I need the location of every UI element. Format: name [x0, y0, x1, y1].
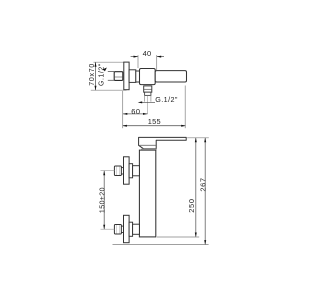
lower connector pipe [133, 224, 140, 234]
svg-text:G.1/2": G.1/2" [98, 63, 105, 86]
upper connector pipe [133, 166, 140, 176]
dimension 40 arrow right (pointing left) [157, 56, 162, 58]
dimension 70x70 extension line bottom [91, 89, 127, 91]
dimension 250 bottom extension line [157, 236, 199, 238]
faucet body (side view) [139, 150, 155, 237]
dimension 70x70 arrow up [95, 62, 97, 66]
extension line right (handle tip projection) for 155 [184, 86, 186, 129]
dimension 150±20 line [103, 171, 105, 230]
dimension 60 arrow right [143, 113, 148, 115]
dimension 60 line [123, 113, 148, 115]
inlet stub bottom line [108, 79, 114, 81]
dimension 40 line right part [157, 56, 164, 58]
connector ring B (top view) [136, 71, 140, 82]
dimension 250 arrow up [195, 138, 197, 143]
dimension 267 bottom extension line [113, 244, 209, 246]
leader line for outlet label [140, 101, 156, 103]
outlet centerline [147, 96, 149, 114]
svg-text:150±20: 150±20 [100, 187, 107, 213]
dimension 60 arrow left [123, 113, 128, 115]
dimension 155 arrow left [122, 125, 127, 127]
dimension 150±20 arrow down [103, 225, 105, 230]
outlet nut midline [144, 88, 152, 90]
inlet stub top line [108, 71, 114, 73]
lower inlet nut (side view) [114, 225, 121, 235]
dimension 150±20 arrow up [103, 171, 105, 176]
lower connector ring [129, 222, 133, 236]
svg-text:267: 267 [198, 177, 207, 191]
lower wall plate (side view) [124, 215, 130, 242]
cartridge collar (side view) [142, 149, 157, 150]
dimension 267 arrow up [204, 138, 206, 143]
dimension 250 line [195, 138, 197, 237]
upper inlet centerline [101, 170, 115, 172]
lower inlet washer [121, 226, 123, 232]
dimension 40 extension line left [137, 55, 139, 68]
wall plate (top view) [124, 62, 129, 90]
svg-text:155: 155 [148, 117, 161, 126]
dimension 40 extension line right [156, 55, 158, 70]
outlet stem thread lines [144, 95, 146, 101]
svg-text:70x70: 70x70 [89, 63, 96, 86]
lever inner contour [140, 144, 156, 146]
upper inlet nut (side view) [114, 166, 121, 176]
inlet nut (top view) [114, 72, 123, 81]
connector ring A (top view) [129, 70, 136, 83]
dimension 70x70 extension line top [94, 61, 125, 63]
svg-text:250: 250 [187, 198, 196, 213]
dimension 155 line [122, 125, 185, 127]
dimension 155 arrow right [181, 125, 186, 127]
lower inlet centerline [101, 228, 115, 230]
dimension 267 line [204, 138, 206, 245]
upper inlet washer [121, 168, 123, 174]
svg-text:60: 60 [131, 107, 140, 116]
leader arrow for rotated G.1/2 [103, 68, 107, 72]
dimension 40 arrow left (pointing right) [134, 56, 139, 58]
upper nut facet lines [115, 167, 117, 175]
upper wall plate (side view) [124, 157, 130, 184]
outlet nut (top view) [144, 86, 152, 92]
svg-text:G.1/2": G.1/2" [155, 95, 178, 104]
lever handle (side view) [139, 137, 187, 148]
faucet body (top view) [140, 69, 156, 85]
dimension 40 line left part [131, 56, 138, 58]
outlet stem [145, 92, 151, 95]
upper connector ring [129, 164, 133, 178]
dimension 70x70 arrow down [95, 86, 97, 91]
handle (top view) [155, 71, 186, 82]
inlet nut midline [115, 76, 123, 78]
lower nut facet lines [115, 225, 117, 233]
dimension 70x70 line [95, 62, 97, 90]
top extension line at lever tip [187, 137, 209, 139]
svg-text:40: 40 [143, 49, 152, 58]
leader arrow for outlet label [138, 101, 143, 103]
dimension 250 arrow down [195, 233, 197, 238]
dimension 267 arrow down [204, 240, 206, 245]
extension line left (wall) for 60/155 [122, 91, 124, 128]
